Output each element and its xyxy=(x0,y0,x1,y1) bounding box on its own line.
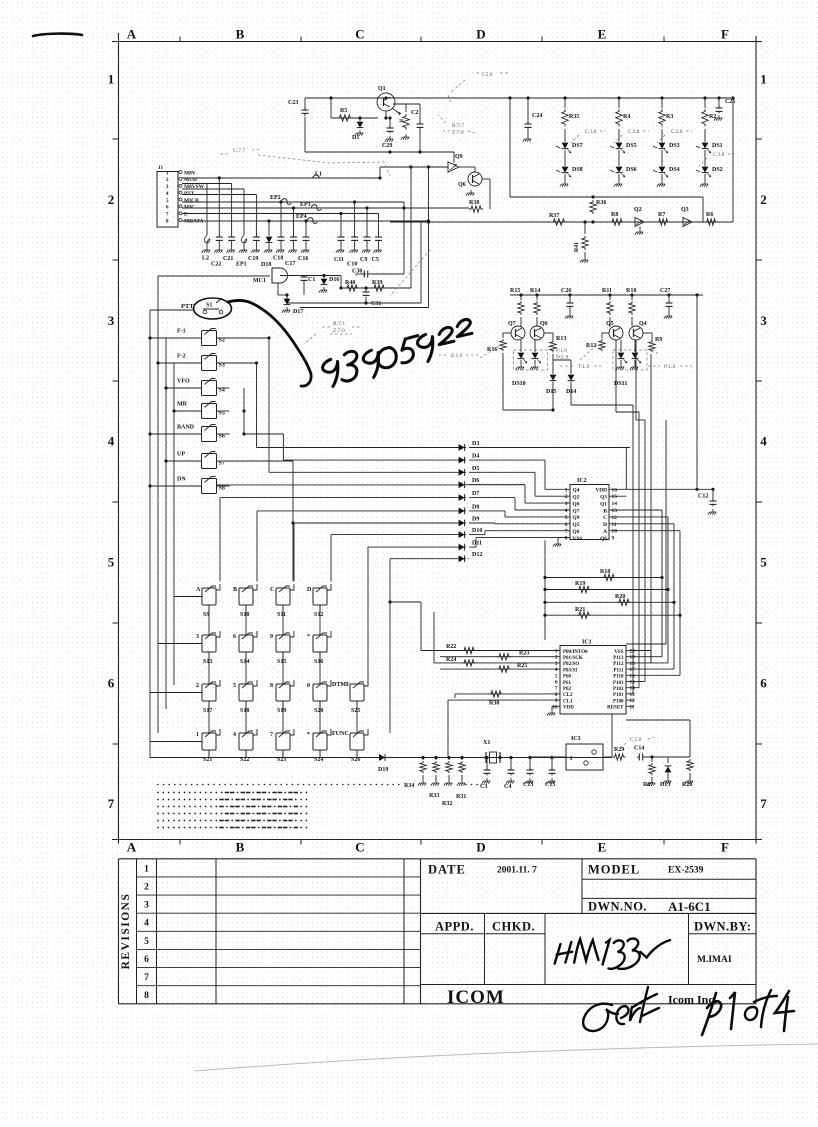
svg-text:C26: C26 xyxy=(561,288,571,294)
svg-text:D9: D9 xyxy=(472,517,479,523)
svg-text:S14: S14 xyxy=(240,659,249,665)
svg-text:Q1: Q1 xyxy=(378,86,386,92)
svg-text:DATE: DATE xyxy=(428,863,466,877)
svg-text:1: 1 xyxy=(196,732,199,738)
svg-text:15: 15 xyxy=(612,494,618,500)
svg-text:5: 5 xyxy=(166,199,169,204)
svg-text:R30: R30 xyxy=(489,701,499,707)
svg-text:S20: S20 xyxy=(314,708,323,714)
svg-text:Q4: Q4 xyxy=(639,321,647,327)
svg-text:R13: R13 xyxy=(556,336,566,342)
svg-text:1: 1 xyxy=(144,864,149,874)
svg-text:6: 6 xyxy=(144,955,149,965)
svg-text:DS3: DS3 xyxy=(669,143,680,149)
svg-text:7: 7 xyxy=(144,973,149,983)
svg-text:3: 3 xyxy=(166,185,169,190)
svg-text:DS1: DS1 xyxy=(712,143,723,149)
svg-text:R20: R20 xyxy=(615,594,625,600)
svg-text:R18: R18 xyxy=(600,569,610,575)
svg-text:C13: C13 xyxy=(523,782,533,788)
svg-text:P102: P102 xyxy=(613,687,624,692)
svg-text:Q2: Q2 xyxy=(573,495,580,501)
svg-text:6: 6 xyxy=(760,676,767,691)
svg-text:FUNC: FUNC xyxy=(332,731,349,737)
svg-text:8: 8 xyxy=(166,219,169,224)
svg-text:PTT: PTT xyxy=(181,303,194,310)
svg-text:DS10: DS10 xyxy=(512,381,526,387)
svg-text:1: 1 xyxy=(565,487,568,493)
svg-text:I: I xyxy=(570,756,573,762)
svg-text:2: 2 xyxy=(108,192,115,207)
svg-text:4: 4 xyxy=(166,192,169,197)
svg-text:Q7: Q7 xyxy=(573,508,580,514)
svg-text:R14: R14 xyxy=(530,288,540,294)
svg-text:D3: D3 xyxy=(472,441,479,447)
svg-text:F:1.9: F:1.9 xyxy=(556,348,567,354)
svg-text:VSS: VSS xyxy=(573,536,583,542)
svg-text:R:7.7: R:7.7 xyxy=(452,123,464,129)
svg-text:P:L.9: P:L.9 xyxy=(664,364,676,370)
svg-text:D8: D8 xyxy=(472,504,479,510)
svg-text:D: D xyxy=(476,27,485,42)
svg-text:C:7.7: C:7.7 xyxy=(233,148,245,154)
svg-text:R3: R3 xyxy=(666,114,673,120)
svg-text:R38: R38 xyxy=(469,200,479,206)
svg-text:D15: D15 xyxy=(546,389,556,395)
svg-text:REVISIONS: REVISIONS xyxy=(120,893,132,970)
svg-text:D10: D10 xyxy=(472,528,482,534)
svg-text:T:L.9: T:L.9 xyxy=(578,364,590,370)
svg-text:16: 16 xyxy=(630,673,636,679)
svg-text:P61: P61 xyxy=(563,681,572,686)
svg-text:6: 6 xyxy=(555,680,558,686)
svg-text:D11: D11 xyxy=(472,541,482,547)
svg-text:C2: C2 xyxy=(411,110,418,116)
svg-text:D13: D13 xyxy=(660,782,670,788)
svg-text:C:5.0: C:5.0 xyxy=(630,737,642,743)
svg-text:Z:7.0: Z:7.0 xyxy=(333,328,345,334)
svg-text:C5.0: C5.0 xyxy=(482,72,493,78)
svg-text:C: C xyxy=(603,515,607,521)
svg-text:F: F xyxy=(721,840,729,855)
svg-text:D17: D17 xyxy=(293,309,303,315)
svg-text:S25: S25 xyxy=(351,708,360,714)
svg-text:D6: D6 xyxy=(472,478,479,484)
svg-text:R37: R37 xyxy=(549,213,559,219)
svg-text:A: A xyxy=(127,27,137,42)
svg-text:M.IMAI: M.IMAI xyxy=(697,955,732,965)
svg-text:16: 16 xyxy=(612,487,618,493)
svg-text:MODEL: MODEL xyxy=(588,863,640,877)
svg-text:6: 6 xyxy=(108,676,115,691)
svg-text:RESET: RESET xyxy=(607,706,624,711)
svg-text:P110: P110 xyxy=(613,675,624,680)
svg-text:C11: C11 xyxy=(334,257,344,263)
svg-text:E: E xyxy=(598,27,607,42)
svg-text:C19: C19 xyxy=(248,256,258,262)
svg-text:DS2: DS2 xyxy=(712,167,723,173)
svg-text:4: 4 xyxy=(760,434,767,449)
svg-text:VFO: VFO xyxy=(177,379,190,385)
svg-text:R36: R36 xyxy=(596,200,606,206)
svg-text:1: 1 xyxy=(760,72,767,87)
svg-text:2: 2 xyxy=(565,494,568,500)
svg-text:D5: D5 xyxy=(472,466,479,472)
svg-text:R35: R35 xyxy=(569,114,579,120)
svg-text:C9: C9 xyxy=(360,257,367,263)
svg-text:2: 2 xyxy=(166,178,169,183)
svg-text:C1: C1 xyxy=(308,277,315,283)
svg-text:*: * xyxy=(307,634,310,640)
svg-text:R39: R39 xyxy=(372,280,382,286)
svg-text:E: E xyxy=(184,212,188,218)
svg-text:DS7: DS7 xyxy=(572,143,583,149)
svg-text:C5: C5 xyxy=(372,257,379,263)
svg-text:S18: S18 xyxy=(240,708,249,714)
svg-text:IC1: IC1 xyxy=(582,640,592,646)
svg-text:Q9: Q9 xyxy=(455,154,463,160)
svg-text:8: 8 xyxy=(144,991,149,1001)
svg-text:S1: S1 xyxy=(206,303,212,309)
svg-text:VDD: VDD xyxy=(563,706,574,711)
svg-text:DTMF: DTMF xyxy=(332,682,350,688)
svg-text:R9: R9 xyxy=(655,337,662,343)
svg-text:A1-6C1: A1-6C1 xyxy=(668,899,711,914)
svg-text:C10: C10 xyxy=(347,262,357,268)
svg-text:C31: C31 xyxy=(371,301,381,307)
svg-text:R11: R11 xyxy=(602,288,612,294)
svg-text:S9: S9 xyxy=(203,612,209,618)
svg-text:D18: D18 xyxy=(261,262,271,268)
svg-text:Q6: Q6 xyxy=(458,182,466,188)
svg-text:P112: P112 xyxy=(613,662,624,667)
svg-text:5: 5 xyxy=(555,673,558,679)
svg-text:IC3: IC3 xyxy=(571,736,581,742)
svg-text:X1: X1 xyxy=(483,740,490,746)
svg-text:7: 7 xyxy=(270,732,273,738)
svg-text:F: F xyxy=(721,27,729,42)
svg-text:D: D xyxy=(307,587,312,593)
svg-text:L1: L1 xyxy=(315,172,322,178)
svg-text:R7: R7 xyxy=(658,212,665,218)
svg-text:9: 9 xyxy=(612,536,615,542)
svg-text:Q7: Q7 xyxy=(508,321,516,327)
svg-text:C:3.8: C:3.8 xyxy=(585,129,597,135)
svg-text:7: 7 xyxy=(108,796,115,811)
svg-text:DWN.BY:: DWN.BY: xyxy=(694,920,752,934)
svg-text:F-1: F-1 xyxy=(177,329,186,335)
svg-text:D12: D12 xyxy=(472,552,482,558)
svg-text:VSS: VSS xyxy=(614,650,623,655)
svg-text:R22: R22 xyxy=(446,644,456,650)
svg-text:R4: R4 xyxy=(623,114,630,120)
svg-text:7: 7 xyxy=(565,529,568,535)
svg-text:Q9: Q9 xyxy=(573,515,580,521)
svg-text:R: R xyxy=(398,119,403,123)
svg-text:C30: C30 xyxy=(352,269,362,275)
svg-text:P00/INTO0: P00/INTO0 xyxy=(563,650,588,655)
svg-text:VDD: VDD xyxy=(595,488,607,494)
svg-text:C4: C4 xyxy=(504,784,511,790)
svg-text:2: 2 xyxy=(760,192,767,207)
svg-text:0: 0 xyxy=(307,683,310,689)
svg-text:6: 6 xyxy=(565,522,568,528)
svg-text:P103: P103 xyxy=(613,681,624,686)
svg-text:D: D xyxy=(476,840,485,855)
svg-text:R34: R34 xyxy=(404,783,414,789)
svg-text:CL1: CL1 xyxy=(563,699,573,704)
svg-text:CL2: CL2 xyxy=(563,693,573,698)
svg-text:P101: P101 xyxy=(613,693,624,698)
svg-text:10: 10 xyxy=(612,529,618,535)
svg-text:S12: S12 xyxy=(314,612,323,618)
svg-text:9: 9 xyxy=(555,698,558,704)
svg-text:C18: C18 xyxy=(273,256,283,262)
svg-text:3: 3 xyxy=(565,501,568,507)
svg-text:Q3: Q3 xyxy=(681,207,689,213)
svg-text:*: * xyxy=(307,732,310,738)
svg-text:C29: C29 xyxy=(382,143,392,149)
svg-text:15: 15 xyxy=(630,680,636,686)
svg-text:R5: R5 xyxy=(340,108,347,114)
svg-text:8: 8 xyxy=(555,692,558,698)
svg-text:S16: S16 xyxy=(314,659,323,665)
svg-text:B: B xyxy=(233,587,237,593)
svg-text:S11: S11 xyxy=(277,612,286,618)
svg-text:Q1: Q1 xyxy=(600,501,607,507)
svg-text:20: 20 xyxy=(630,649,636,655)
svg-text:Q6: Q6 xyxy=(573,529,580,535)
svg-text:P01/SCK: P01/SCK xyxy=(563,656,583,661)
svg-text:4: 4 xyxy=(555,667,558,673)
svg-text:Q5: Q5 xyxy=(573,522,580,528)
svg-text:APPD.: APPD. xyxy=(435,920,474,934)
svg-text:5: 5 xyxy=(565,515,568,521)
svg-text:R31: R31 xyxy=(456,794,466,800)
svg-text:4: 4 xyxy=(565,508,568,514)
svg-text:S13: S13 xyxy=(203,659,212,665)
svg-text:C16: C16 xyxy=(298,256,308,262)
svg-text:IC2: IC2 xyxy=(577,478,587,484)
svg-text:19: 19 xyxy=(630,655,636,661)
svg-text:R12: R12 xyxy=(586,343,596,349)
svg-text:DN: DN xyxy=(177,477,186,483)
svg-text:MC1: MC1 xyxy=(253,278,266,284)
svg-text:DS6: DS6 xyxy=(626,167,637,173)
svg-text:EX-2539: EX-2539 xyxy=(668,866,704,876)
svg-text:C: C xyxy=(270,587,274,593)
svg-text:R26: R26 xyxy=(682,782,692,788)
svg-text:4: 4 xyxy=(233,732,236,738)
svg-text:E:1.9: E:1.9 xyxy=(451,353,463,359)
svg-text:UP: UP xyxy=(177,452,185,458)
svg-text:8: 8 xyxy=(565,536,568,542)
svg-text:9: 9 xyxy=(270,634,273,640)
svg-text:C25: C25 xyxy=(725,99,735,105)
svg-text:D19: D19 xyxy=(378,767,388,773)
svg-text:5: 5 xyxy=(233,683,236,689)
svg-text:ICOM: ICOM xyxy=(447,987,505,1008)
svg-text:EP2: EP2 xyxy=(270,195,281,201)
svg-text:2001.11. 7: 2001.11. 7 xyxy=(497,866,537,876)
svg-text:Q6: Q6 xyxy=(540,321,548,327)
svg-text:D: D xyxy=(603,522,607,528)
svg-text:CHKD.: CHKD. xyxy=(492,920,535,934)
svg-text:1: 1 xyxy=(108,72,115,87)
svg-text:3: 3 xyxy=(196,634,199,640)
svg-text:M8V: M8V xyxy=(184,170,196,176)
svg-text:Q3: Q3 xyxy=(600,495,607,501)
svg-text:C22: C22 xyxy=(211,262,221,268)
svg-text:14: 14 xyxy=(630,686,636,692)
svg-text:Q4: Q4 xyxy=(573,488,580,494)
svg-text:R41: R41 xyxy=(574,242,580,252)
svg-text:C: C xyxy=(355,27,364,42)
svg-text:C3: C3 xyxy=(480,784,487,790)
svg-text:R6: R6 xyxy=(706,212,713,218)
svg-text:18: 18 xyxy=(630,661,636,667)
svg-text:P60: P60 xyxy=(563,675,572,680)
svg-text:C: C xyxy=(355,840,364,855)
svg-text:C:3.8: C:3.8 xyxy=(671,129,683,135)
svg-text:R:7.1: R:7.1 xyxy=(333,321,345,327)
svg-text:C:3.8: C:3.8 xyxy=(713,152,725,158)
svg-text:3: 3 xyxy=(144,901,149,911)
svg-text:DWN.NO.: DWN.NO. xyxy=(588,900,647,914)
svg-text:10: 10 xyxy=(552,704,558,710)
svg-text:EP1: EP1 xyxy=(236,262,247,268)
svg-text:R8: R8 xyxy=(611,212,618,218)
svg-text:4: 4 xyxy=(108,434,115,449)
svg-text:D:L.9: D:L.9 xyxy=(556,355,569,361)
svg-text:R23: R23 xyxy=(519,651,529,657)
svg-text:2: 2 xyxy=(555,655,558,661)
svg-text:13: 13 xyxy=(630,692,636,698)
svg-text:D1: D1 xyxy=(352,135,359,141)
svg-text:3: 3 xyxy=(555,661,558,667)
svg-text:8: 8 xyxy=(270,683,273,689)
svg-text:S10: S10 xyxy=(240,612,249,618)
svg-text:A: A xyxy=(127,840,137,855)
svg-text:Z:7.6: Z:7.6 xyxy=(452,130,464,136)
svg-text:C21: C21 xyxy=(223,256,233,262)
svg-text:C15: C15 xyxy=(545,782,555,788)
svg-text:6: 6 xyxy=(166,206,169,211)
svg-text:R10: R10 xyxy=(626,288,636,294)
svg-text:17: 17 xyxy=(630,667,636,673)
svg-text:P111: P111 xyxy=(613,668,624,673)
svg-text:5: 5 xyxy=(144,937,149,947)
svg-text:B: B xyxy=(603,508,607,514)
svg-text:E: E xyxy=(598,840,607,855)
svg-text:1: 1 xyxy=(166,171,169,176)
svg-text:J1: J1 xyxy=(158,166,164,171)
svg-text:S15: S15 xyxy=(277,659,286,665)
svg-text:13: 13 xyxy=(612,508,618,514)
svg-text:P02/SO: P02/SO xyxy=(563,662,579,667)
svg-text:R33: R33 xyxy=(429,793,439,799)
svg-text:2: 2 xyxy=(196,683,199,689)
svg-text:C14: C14 xyxy=(634,746,644,752)
svg-text:R21: R21 xyxy=(575,607,585,613)
svg-text:6: 6 xyxy=(233,634,236,640)
svg-text:P100: P100 xyxy=(613,699,624,704)
svg-text:C24: C24 xyxy=(532,113,542,119)
svg-text:MR: MR xyxy=(177,402,188,408)
svg-text:DS4: DS4 xyxy=(669,167,680,173)
svg-text:C17: C17 xyxy=(285,261,295,267)
svg-text:F-2: F-2 xyxy=(177,354,186,360)
svg-text:P62: P62 xyxy=(563,687,572,692)
svg-text:A: A xyxy=(196,587,201,593)
svg-text:S19: S19 xyxy=(277,708,286,714)
svg-text:S17: S17 xyxy=(203,708,212,714)
svg-text:MICB: MICB xyxy=(184,198,199,204)
svg-text:3: 3 xyxy=(760,313,767,328)
svg-text:C27: C27 xyxy=(660,288,670,294)
svg-text:R32: R32 xyxy=(442,801,452,807)
svg-text:C23: C23 xyxy=(288,100,298,106)
svg-text:5: 5 xyxy=(108,555,115,570)
svg-text:D16: D16 xyxy=(329,277,339,283)
svg-text:R25: R25 xyxy=(517,663,527,669)
svg-text:12: 12 xyxy=(630,698,636,704)
svg-text:11: 11 xyxy=(612,522,617,528)
svg-text:P03/SI: P03/SI xyxy=(563,668,577,673)
svg-text:7: 7 xyxy=(555,686,558,692)
svg-text:7: 7 xyxy=(166,213,169,218)
svg-text:DS8: DS8 xyxy=(572,167,583,173)
svg-text:7: 7 xyxy=(760,796,767,811)
svg-text:PTT: PTT xyxy=(184,191,195,197)
svg-text:L2: L2 xyxy=(202,256,209,262)
svg-text:P113: P113 xyxy=(613,656,624,661)
svg-text:2: 2 xyxy=(144,882,149,892)
svg-text:Q0: Q0 xyxy=(573,501,580,507)
svg-text:12: 12 xyxy=(612,515,618,521)
svg-text:R27: R27 xyxy=(643,782,653,788)
svg-text:R16: R16 xyxy=(487,347,497,353)
svg-text:3: 3 xyxy=(108,313,115,328)
svg-text:R15: R15 xyxy=(510,288,520,294)
svg-text:B: B xyxy=(236,840,245,855)
svg-text:R29: R29 xyxy=(614,747,624,753)
svg-text:4: 4 xyxy=(144,919,149,929)
svg-text:DS5: DS5 xyxy=(626,143,637,149)
svg-text:D7: D7 xyxy=(472,491,479,497)
svg-text:BAND: BAND xyxy=(177,425,195,431)
svg-text:R24: R24 xyxy=(446,657,456,663)
svg-text:Q6: Q6 xyxy=(600,536,607,542)
svg-text:EP3: EP3 xyxy=(300,202,311,208)
svg-text:11: 11 xyxy=(630,704,635,710)
svg-text:Q2: Q2 xyxy=(634,207,642,213)
svg-text:A: A xyxy=(603,529,607,535)
svg-text:R40: R40 xyxy=(345,280,355,286)
svg-text:5: 5 xyxy=(760,555,767,570)
svg-text:EP4: EP4 xyxy=(296,214,307,220)
svg-text:1: 1 xyxy=(555,649,558,655)
svg-text:R19: R19 xyxy=(575,581,585,587)
svg-text:C:3.8: C:3.8 xyxy=(628,129,640,135)
svg-text:D4: D4 xyxy=(472,454,479,460)
svg-text:14: 14 xyxy=(612,501,618,507)
svg-text:B: B xyxy=(236,27,245,42)
svg-text:C12: C12 xyxy=(698,494,708,500)
